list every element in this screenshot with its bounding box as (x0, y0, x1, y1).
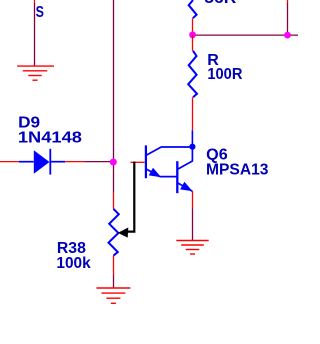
svg-text:MPSA13: MPSA13 (206, 162, 269, 179)
transistor Q6 emitter pin (192, 191, 194, 208)
transistor Q6 inner Q2 collector (177, 147, 192, 170)
potentiometer R38 bottom pin (113, 256, 115, 275)
resistor R top pin (192, 35, 194, 51)
resistor R bottom pin (192, 97, 194, 130)
ground GND2 under R38 (96, 288, 130, 303)
wire node down to R38 (113, 162, 115, 193)
ground GND3 under Q6 (176, 241, 208, 255)
potentiometer R38 zigzag (109, 209, 119, 256)
svg-text:100R: 100R (207, 66, 242, 83)
resistor top bottom pin (192, 18, 194, 35)
transistor Q6 inner Q1 collector (146, 147, 192, 155)
junction node top right (284, 32, 291, 39)
svg-text:S: S (36, 4, 45, 21)
transistor Q6 base pin (131, 161, 145, 163)
transistor Q6 inner Q1 emitter arrow (149, 168, 162, 178)
wire Q6 emitter to ground (192, 209, 194, 241)
transistor Q6 inner Q2 bar (176, 161, 178, 193)
svg-text:1N4148: 1N4148 (18, 130, 82, 147)
wire top right vertical (287, 0, 289, 35)
wire S vertical (34, 0, 36, 66)
transistor Q6 inner wire Q1 emitter to Q2 base (160, 176, 178, 178)
junction node top left (189, 31, 196, 38)
wire diode cathode to node (84, 161, 113, 163)
diode D9 (19, 149, 65, 175)
ground GND1 (17, 66, 54, 80)
transistor Q6 inner Q2 emitter (177, 183, 192, 192)
wire vertical to diode node (113, 0, 115, 162)
svg-text:100k: 100k (56, 255, 90, 272)
wire wiper black vertical (124, 162, 134, 232)
diode D9 cathode pin (65, 161, 84, 163)
wiper arrow (118, 228, 129, 238)
transistor Q6 collector stub (191, 130, 193, 146)
svg-text:56R: 56R (204, 0, 236, 7)
potentiometer R38 top pin (113, 193, 115, 209)
resistor R zigzag (188, 51, 197, 98)
diode D9 anode pin (0, 161, 19, 163)
wire R38 to ground (113, 274, 115, 288)
transistor Q6 inner Q2 emitter arrow (180, 182, 193, 192)
wire top horizontal (193, 34, 299, 36)
transistor Q6 collector junction dot (189, 144, 195, 150)
resistor top zigzag (cut off) (189, 0, 197, 18)
transistor Q6 inner Q1 emitter (146, 169, 160, 177)
junction node diode/base/pot (110, 159, 117, 166)
transistor Q6 inner Q1 bar (145, 145, 147, 178)
